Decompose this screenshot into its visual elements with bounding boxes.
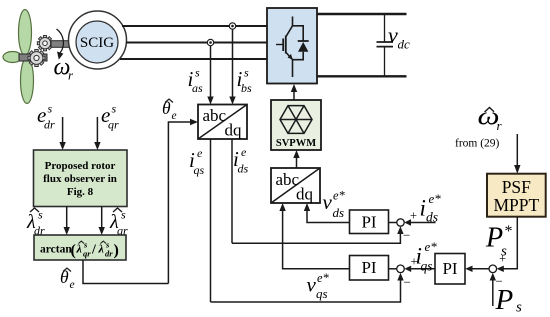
- gearbox gear lower: [28, 50, 45, 67]
- abc-dq block 2 (voltage transform): [271, 168, 320, 204]
- wire lambda_qr to arctan: [101, 207, 103, 229]
- phase line c: [120, 58, 268, 60]
- svg-text:e*: e*: [333, 189, 346, 203]
- wind turbine hub: [3, 52, 22, 63]
- wire e_qr into observer: [96, 117, 98, 143]
- svg-text:dr: dr: [105, 249, 113, 259]
- summing junction q-axis: [397, 265, 405, 273]
- svg-text:ds: ds: [426, 210, 438, 225]
- IGBT Q1: [286, 26, 293, 37]
- wire lambda_dr to arctan: [66, 207, 68, 229]
- svg-text:PI: PI: [442, 259, 457, 278]
- low-speed shaft: [19, 54, 47, 61]
- svg-text:P: P: [495, 284, 514, 316]
- arctan block: [34, 235, 126, 260]
- current sensor on phase b (middle line): [207, 39, 213, 45]
- svg-text:MPPT: MPPT: [493, 195, 539, 215]
- space vector hexagon: [280, 106, 312, 134]
- wire i_qs feedback: [211, 281, 401, 303]
- PI controller power: [435, 254, 465, 285]
- phase line b: [126, 42, 268, 44]
- svg-text:s: s: [38, 208, 43, 222]
- svg-text:e: e: [172, 110, 177, 122]
- svg-text:s: s: [501, 244, 507, 260]
- svg-text:i: i: [420, 196, 426, 221]
- svg-text:s: s: [121, 208, 126, 222]
- svg-text:SCIG: SCIG: [80, 35, 114, 51]
- svg-text:dq: dq: [225, 121, 243, 140]
- svg-text:s: s: [195, 66, 200, 80]
- svg-text:qr: qr: [83, 249, 91, 259]
- wind turbine blade lower: [21, 58, 34, 104]
- wire P_s up into junction: [492, 281, 494, 307]
- svg-text:v: v: [323, 190, 333, 214]
- svg-text:as: as: [192, 81, 203, 95]
- SCIG generator outer circle: [69, 11, 127, 69]
- PI controller d-axis: [350, 210, 389, 234]
- svg-text:PI: PI: [361, 258, 376, 277]
- SCIG generator inner circle: [76, 21, 118, 63]
- svg-text:ds: ds: [238, 162, 249, 176]
- PI controller q-axis: [350, 256, 389, 281]
- svg-text:v: v: [388, 23, 398, 48]
- svg-text:−: −: [404, 275, 411, 290]
- svg-text:qs: qs: [316, 286, 328, 301]
- svg-text:(: (: [71, 242, 76, 259]
- svg-text:s: s: [48, 102, 53, 116]
- svg-text:e: e: [197, 146, 203, 160]
- svg-text:s: s: [516, 300, 522, 316]
- svg-text:Proposed rotor: Proposed rotor: [45, 160, 116, 172]
- wind turbine blade upper: [19, 10, 32, 56]
- wire e_dr into observer: [62, 117, 64, 143]
- svg-text:Fig. 8: Fig. 8: [67, 186, 94, 198]
- converter block: [267, 8, 317, 84]
- svg-text:e*: e*: [429, 191, 442, 206]
- svg-text:PSF: PSF: [502, 177, 531, 197]
- svg-text:dc: dc: [398, 37, 411, 52]
- abc-dq block 1 (current transform): [198, 105, 247, 140]
- svg-text:e*: e*: [317, 271, 330, 285]
- svg-text:from (29): from (29): [455, 138, 500, 150]
- svg-text:dq: dq: [296, 185, 314, 204]
- svg-text:qr: qr: [108, 118, 119, 132]
- wire i_bs sensor to abc-dq1: [232, 29, 234, 97]
- rotor flux observer block: [34, 150, 128, 207]
- svg-text:bs: bs: [241, 81, 252, 95]
- rotation arrow arc: [57, 29, 64, 53]
- wire junction to PI q-axis: [389, 268, 397, 270]
- phase line a: [122, 25, 268, 27]
- svg-text:qs: qs: [194, 163, 205, 177]
- svg-text:arctan: arctan: [40, 244, 72, 256]
- SVPWM block: [271, 100, 321, 150]
- svg-text:e: e: [241, 145, 247, 159]
- svg-text:dr: dr: [44, 118, 55, 132]
- wire i_ds feedback: [232, 233, 400, 243]
- wire v_qs into abc-dq2: [283, 210, 350, 269]
- wire PI power to q junction: [410, 268, 435, 270]
- diode D1: [298, 40, 309, 42]
- dc bus top rail: [317, 13, 407, 15]
- gearbox gear upper: [37, 36, 52, 51]
- wire arctan output theta_e: [83, 260, 168, 284]
- wire junction to PI d-axis: [389, 222, 397, 224]
- svg-text:*: *: [505, 223, 513, 240]
- wire v_ds into abc-dq2: [307, 210, 350, 223]
- svg-text:SVPWM: SVPWM: [276, 138, 316, 149]
- wire P junction to power PI: [472, 268, 490, 270]
- wire P_s* from MPPT: [503, 217, 517, 269]
- current sensor on phase a (top line): [229, 23, 235, 29]
- wire i_qs^e down: [210, 139, 212, 302]
- svg-text:v: v: [307, 273, 317, 297]
- summing junction d-axis: [397, 219, 404, 226]
- wire i_ds ref into junction: [410, 222, 436, 224]
- svg-text:flux observer in: flux observer in: [43, 173, 117, 185]
- svg-text:+: +: [410, 209, 417, 223]
- svg-text:s: s: [244, 66, 249, 80]
- svg-text:ds: ds: [333, 205, 345, 220]
- svg-text:qs: qs: [421, 259, 433, 274]
- wire i_as sensor to abc-dq1: [210, 46, 212, 98]
- dc bus bottom rail: [317, 75, 407, 77]
- svg-text:PI: PI: [361, 213, 376, 232]
- gate wire SVPWM to converter: [293, 91, 295, 100]
- svg-text:s: s: [112, 102, 117, 116]
- svg-text:e*: e*: [425, 239, 438, 254]
- dc-link capacitor: [384, 14, 386, 42]
- wire omega_r to MPPT: [516, 134, 518, 166]
- PSF MPPT block: [487, 174, 546, 217]
- svg-text:abc: abc: [203, 106, 227, 125]
- summing junction power: [489, 265, 497, 273]
- svg-text:e: e: [70, 279, 75, 291]
- wire i_ds^e down: [231, 139, 233, 243]
- IGBT top lead: [293, 17, 304, 42]
- svg-text:): ): [114, 242, 119, 259]
- wire abc-dq2 to SVPWM: [296, 157, 298, 168]
- wire theta_e into abc-dq1: [168, 122, 190, 284]
- high-speed shaft: [51, 41, 70, 48]
- svg-text:−: −: [403, 228, 410, 243]
